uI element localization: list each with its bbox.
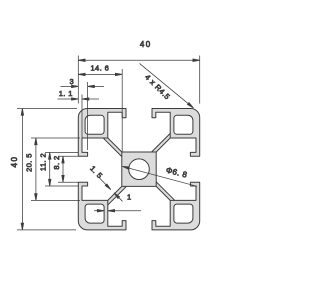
extension line top face [17, 108, 77, 110]
dimension 20.5 [35, 138, 37, 200]
dimension 40 top [78, 59, 199, 61]
svg-text:1. 5: 1. 5 [88, 164, 104, 180]
svg-text:20. 5: 20. 5 [25, 153, 34, 172]
leader dia6.8 [123, 166, 198, 186]
svg-text:14. 6: 14. 6 [90, 64, 109, 73]
profile body fill [78, 109, 199, 230]
web lower edge 1 [152, 133, 171, 152]
svg-text:11. 2: 11. 2 [39, 153, 48, 171]
web lower edge 3 [108, 186, 127, 205]
svg-text:1. 1: 1. 1 [59, 89, 73, 98]
web fill 2 [149, 175, 175, 206]
dimension 1.1 [58, 98, 79, 100]
corner hollow 0 [85, 115, 104, 134]
web fill 1 [145, 133, 176, 159]
center hole fill [129, 159, 150, 180]
center hole outline [129, 159, 150, 180]
svg-text:40: 40 [10, 156, 19, 168]
web lower edge 0 [103, 138, 122, 157]
corner hollow 1 [174, 115, 193, 134]
corner hollow 3 [85, 204, 104, 223]
extension line 11.2 upper [45, 151, 78, 153]
center block fill [122, 152, 156, 186]
extension line 8.2 lower [58, 181, 78, 183]
svg-text:Φ6. 8: Φ6. 8 [165, 166, 188, 180]
dimension 1 [94, 210, 104, 212]
extension line left face [77, 56, 79, 104]
leader 1.5 [99, 177, 111, 190]
dimension 14.6 [78, 73, 122, 75]
corner hollow 2 [174, 204, 193, 223]
dimension 3 [61, 85, 79, 87]
svg-text:8. 2: 8. 2 [52, 155, 61, 169]
extension line 8.2 upper [58, 155, 78, 157]
extension line 20.5 lower [31, 199, 80, 201]
svg-text:40: 40 [140, 40, 152, 49]
dimension 11.2 [49, 152, 51, 186]
svg-text:3: 3 [70, 77, 75, 86]
extension line 20.5 upper [31, 137, 80, 139]
web fill 3 [103, 179, 133, 205]
extension line 3 [87, 82, 89, 150]
profile outline [78, 109, 199, 230]
extension line bottom face [17, 229, 76, 231]
svg-text:1: 1 [127, 193, 132, 202]
leader 4xR4.5 [140, 63, 194, 108]
extension line right face [199, 56, 201, 104]
dimension 40 left [21, 109, 23, 230]
extension line 1.1 [81, 95, 83, 153]
extension line 14.6 [121, 69, 123, 152]
web lower edge 2 [156, 182, 175, 201]
dimension 8.2 [62, 156, 64, 182]
extension line 11.2 lower [45, 185, 78, 187]
web fill 0 [103, 133, 129, 164]
